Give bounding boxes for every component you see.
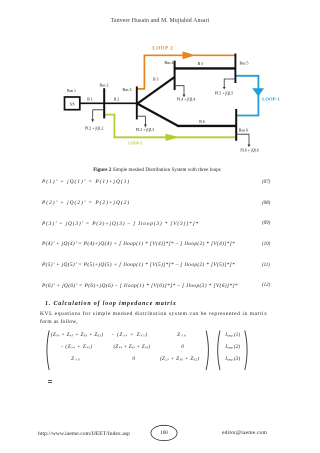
branch B5 wire (bus4-bus5) — [175, 67, 236, 69]
matrix row2 col3 — [181, 344, 184, 350]
svg-text:B 6: B 6 — [199, 120, 205, 124]
matrix row1 col2 — [112, 332, 148, 338]
equation 12 — [42, 283, 238, 289]
loop-current vector right bracket — [245, 331, 247, 371]
continuation equals sign — [48, 379, 52, 382]
svg-text:PL4 + jQL4: PL4 + jQL4 — [177, 98, 195, 102]
equation 10 — [42, 241, 235, 247]
matrix row3 col2 — [132, 356, 135, 362]
svg-text:B 5: B 5 — [198, 62, 204, 66]
bus 6 load tap wire — [236, 134, 249, 145]
matrix row1 col1 — [51, 332, 104, 338]
svg-text:S/S: S/S — [70, 103, 75, 107]
bus 2 load tap wire — [93, 110, 105, 120]
loop-current vector left bracket — [218, 331, 220, 371]
bus 4 load arrowhead — [183, 95, 186, 98]
figure caption — [0, 168, 314, 173]
loop current vector entries — [225, 332, 240, 338]
matrix right bracket — [206, 331, 208, 371]
bus 3 load arrowhead — [144, 124, 147, 127]
bus 6 bar — [235, 109, 237, 141]
bus 5 load tap wire — [224, 79, 235, 88]
matrix row3 col3 — [160, 356, 200, 362]
branch B6 horizontal wire to bus 6 — [177, 125, 236, 127]
svg-text:LOOP-3: LOOP-3 — [128, 141, 142, 145]
section heading — [45, 301, 177, 307]
svg-text:PL6 + jQL6: PL6 + jQL6 — [240, 148, 258, 152]
bus 1 substation box — [65, 97, 80, 110]
bus 2 bar — [103, 88, 105, 118]
bus 3 load tap wire — [137, 116, 146, 124]
matrix left bracket — [47, 331, 49, 371]
equation 11 — [42, 262, 235, 268]
matrix row3 col1 — [71, 356, 81, 362]
bus 5 bar — [234, 54, 236, 84]
loop 2 direction arrow — [183, 51, 196, 59]
svg-text:PL3 + jQL3: PL3 + jQL3 — [136, 128, 154, 132]
svg-text:B 1: B 1 — [87, 97, 93, 101]
branch B6 diagonal wire (bus3 down) — [137, 103, 178, 126]
bus 4 load tap wire — [175, 86, 184, 95]
loop 2 tie wire (orange) — [137, 55, 236, 89]
branch B3 wire (bus3-bus4 diagonal) — [137, 77, 175, 104]
svg-text:Bus 5: Bus 5 — [240, 61, 249, 65]
bus 3 bar — [136, 86, 138, 119]
equation 08 — [42, 200, 130, 206]
svg-text:LOOP 2: LOOP 2 — [152, 47, 173, 52]
svg-text:B 2: B 2 — [114, 97, 120, 101]
footer email — [222, 430, 267, 436]
loop 1 tie wire (blue) — [236, 76, 258, 116]
svg-text:LOOP-1: LOOP-1 — [262, 97, 280, 102]
body text line 2 — [40, 319, 78, 325]
loop 3 tie wire (green) — [104, 115, 235, 138]
footer page-number ellipse — [151, 425, 177, 440]
matrix row2 col2 — [113, 344, 150, 350]
bus 4 bar — [174, 61, 176, 90]
matrix row1 col3 — [177, 332, 187, 338]
bus 6 load arrowhead — [248, 145, 251, 148]
svg-text:Bus 1: Bus 1 — [67, 89, 76, 93]
bus 5 load arrowhead — [223, 87, 226, 89]
loop 3 direction arrow — [166, 134, 180, 141]
svg-text:Bus 3: Bus 3 — [123, 88, 132, 92]
svg-text:Bus 4: Bus 4 — [165, 61, 174, 65]
body text line 1 — [40, 311, 267, 317]
wire branch B1-B2 main feeder — [80, 102, 137, 104]
svg-text:B 3: B 3 — [153, 78, 159, 82]
equation 09 — [42, 221, 199, 227]
loop 1 direction arrow — [252, 88, 264, 96]
bus 2 load arrowhead — [91, 119, 94, 122]
footer page number — [160, 430, 168, 436]
svg-text:PL2 + jQL2: PL2 + jQL2 — [85, 126, 103, 130]
svg-text:Bus 6: Bus 6 — [239, 128, 248, 133]
header running title — [0, 18, 320, 24]
equation 07 — [42, 179, 130, 185]
footer url — [38, 431, 130, 437]
matrix row2 col1 — [61, 344, 92, 350]
svg-text:Bus 2: Bus 2 — [100, 83, 109, 87]
svg-text:PL5 + jQL5: PL5 + jQL5 — [215, 92, 233, 96]
